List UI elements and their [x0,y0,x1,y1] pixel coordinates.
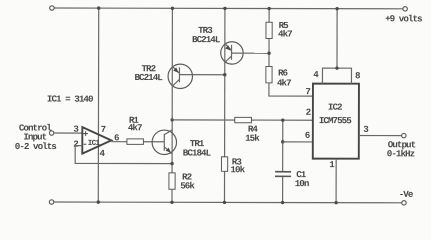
svg-text:IC1: IC1 [88,140,101,148]
wire op-amp output to R1 [111,141,127,143]
svg-text:2: 2 [306,107,311,118]
node top rail x224 [223,7,226,10]
svg-text:BC184L: BC184L [183,148,212,159]
svg-text:ICM7555: ICM7555 [319,115,352,126]
wire R4 node to C1 vertical [282,120,284,171]
node top rail x171 [171,7,174,10]
svg-text:56k: 56k [180,180,195,191]
wire pin1 to rail [335,159,337,203]
wire pin3 output [359,135,402,137]
node feedback-emitter junction [170,162,173,165]
node bottom rail x98 [97,200,100,203]
svg-text:15k: 15k [245,133,260,144]
resistor R1 [127,139,144,145]
wire R5-R6 vertical and elbow to pin7 [269,9,313,97]
svg-text:6: 6 [305,130,310,141]
node bottom rail x171 [170,201,173,204]
wire supply bracket pins 4 and 8 [322,68,351,84]
transistor TR3 BC214L [221,42,243,64]
IC2 ICM7555 [313,84,359,159]
node bottom rail x335 [334,201,337,204]
terminal top-left [50,6,54,10]
wire TR3 base [232,52,269,54]
svg-text:-Ve: -Ve [399,189,414,200]
transistor TR2 BC214L [168,64,192,88]
svg-text:2: 2 [73,139,78,150]
svg-text:IC1 = 3140: IC1 = 3140 [47,94,93,105]
node bottom rail x224 [223,201,226,204]
wire control input to pin3 [54,132,82,134]
svg-text:4k7: 4k7 [128,122,142,133]
svg-text:-: - [82,139,87,150]
node top rail x268 [267,7,270,10]
terminal -Ve [402,201,406,205]
wire TR1 collector to R4 to pin2 [172,119,313,121]
resistor R2 [169,173,175,189]
wire bottom supply rail [54,201,402,204]
resistor R3 [221,157,227,172]
node TR2 base junction [223,73,226,76]
terminal bottom-left [49,200,53,204]
svg-text:4k7: 4k7 [278,29,292,40]
svg-text:7: 7 [101,124,106,135]
node top rail x336 [335,7,338,10]
node bracket supply junction [335,66,338,69]
svg-text:+9 volts: +9 volts [385,13,422,24]
node TR1 collector junction [170,118,173,121]
node R4-pin2 junction [281,118,284,121]
svg-text:0-1kHz: 0-1kHz [387,148,415,159]
svg-text:7: 7 [305,86,310,97]
wire IC2 supply vertical [336,9,338,68]
svg-text:10k: 10k [230,164,245,175]
svg-text:BC214L: BC214L [192,34,221,45]
svg-text:0-2 volts: 0-2 volts [15,141,57,152]
node top rail x98 [97,6,100,9]
wire R1 to TR1 base [143,141,164,143]
svg-text:IC2: IC2 [328,102,342,113]
wire pin6 [283,141,313,143]
wire TR2-TR1-R2 vertical [171,8,173,202]
resistor R4 [235,117,252,122]
terminal +9V [403,7,407,11]
wire pin2 feedback [75,146,172,164]
node pin6 junction [281,140,284,143]
node bottom rail x282 [281,201,284,204]
resistor R6 [266,67,272,83]
wire TR3-R3 vertical [223,8,225,202]
resistor R5 [266,22,272,38]
svg-text:10n: 10n [295,178,309,189]
svg-text:4k7: 4k7 [277,78,291,89]
node R5-R6 junction [267,52,270,55]
wire TR2 base [179,74,224,76]
control input terminal [49,131,53,135]
output terminal [402,133,406,137]
transistor TR1 BC184L [152,130,176,155]
capacitor C1 [275,172,291,203]
op-amp IC1 [82,127,111,154]
wire IC1 supply vertical [97,8,99,202]
wire top supply rail [54,7,403,10]
svg-text:BC214L: BC214L [134,72,163,83]
